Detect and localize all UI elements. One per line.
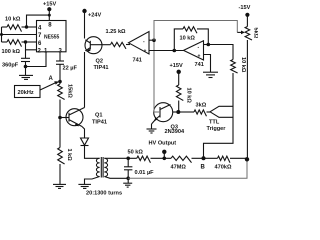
node 10k/pin4 junction xyxy=(25,25,28,28)
node U2 minus junction xyxy=(152,38,156,42)
wire U3 plus stub to ground xyxy=(204,55,211,73)
svg-text:Q2: Q2 xyxy=(96,59,103,65)
svg-text:0.01 µF: 0.01 µF xyxy=(135,170,155,176)
wire cap to node A xyxy=(59,64,61,81)
diode D1 xyxy=(81,138,89,146)
wire Q3 base from op-amp xyxy=(154,40,160,112)
wire 1k to ground xyxy=(59,164,61,184)
wire secondary bottom lead xyxy=(104,177,128,179)
ground G5 xyxy=(78,184,91,188)
wire U2 plus row to U3 output xyxy=(149,50,184,52)
resistor 15k (pot body) xyxy=(58,82,73,100)
node feedback/ground junction xyxy=(126,177,130,181)
node Q3 collector xyxy=(176,110,180,114)
transformer core xyxy=(101,157,103,178)
node cap 0.01 junction xyxy=(126,157,130,161)
svg-text:741: 741 xyxy=(133,58,142,64)
resistor R 100k xyxy=(2,40,37,55)
wire 1.25k to op-amp U2 output xyxy=(126,44,130,46)
node Q1 base junction xyxy=(58,116,62,120)
svg-text:TIP41: TIP41 xyxy=(94,65,109,71)
ground G6 xyxy=(123,183,132,187)
wire 3k to TTL tag xyxy=(207,111,211,113)
svg-text:20kHz: 20kHz xyxy=(18,90,34,96)
wire -15V to pot xyxy=(246,15,248,27)
resistor 47M xyxy=(171,156,192,170)
svg-text:TTL: TTL xyxy=(209,120,220,126)
wire pot bottom down right edge xyxy=(246,40,248,159)
svg-text:+24V: +24V xyxy=(88,13,101,19)
pot wiper arrow xyxy=(237,31,245,35)
wire +15V dot to pin8 xyxy=(48,9,50,20)
svg-text:10 kΩ: 10 kΩ xyxy=(186,88,192,104)
resistor 3k xyxy=(194,103,207,117)
ground G4 xyxy=(53,184,66,188)
svg-text:Q1: Q1 xyxy=(95,113,102,119)
wire U3 minus stub xyxy=(204,44,209,46)
svg-text:+15V: +15V xyxy=(170,63,183,69)
wire Q2 base to 1.25k xyxy=(102,44,111,46)
wire Q2 emitter down to Q1 collector xyxy=(84,52,86,108)
svg-text:10 kΩ: 10 kΩ xyxy=(5,17,21,23)
wire base node to Q1 xyxy=(60,117,69,119)
capacitor 22uF xyxy=(56,61,77,72)
op-amp U3 741 (right) xyxy=(184,41,204,68)
20kHz source box xyxy=(15,86,41,98)
svg-text:100 kΩ: 100 kΩ xyxy=(2,49,21,55)
wiper arrow from 20kHz box to node A xyxy=(40,81,59,90)
node left rail junction xyxy=(0,33,3,36)
wire cap to ground xyxy=(25,62,27,76)
wire U2 minus stub xyxy=(149,39,154,41)
wire +15V rail to R1 column xyxy=(27,15,50,27)
svg-text:2N3904: 2N3904 xyxy=(165,129,185,135)
top feedback wire gray xyxy=(154,21,237,41)
TTL trigger terminal tag xyxy=(207,106,234,132)
svg-text:A: A xyxy=(49,76,54,82)
svg-text:470kΩ: 470kΩ xyxy=(215,164,232,170)
svg-text:22 µF: 22 µF xyxy=(63,66,78,72)
wire 15k to Q1 base node xyxy=(59,100,61,118)
wire 47M to node B xyxy=(192,157,218,159)
node B xyxy=(202,156,206,160)
wire 10k to collector node xyxy=(178,101,180,113)
wire pin 3 down xyxy=(59,52,61,61)
wire +24V down to Q2 collector xyxy=(84,11,86,39)
svg-text:1.25 kΩ: 1.25 kΩ xyxy=(106,29,127,35)
svg-text:47MΩ: 47MΩ xyxy=(171,165,187,171)
svg-text:20:1300 turns: 20:1300 turns xyxy=(86,191,122,196)
transistor Q1 TIP41 xyxy=(66,108,107,127)
ground G2 xyxy=(203,72,218,77)
+24V terminal dot xyxy=(82,9,86,13)
svg-text:+15V: +15V xyxy=(43,2,56,8)
resistor 50k xyxy=(128,150,151,163)
capacitor 360pF xyxy=(2,58,30,68)
wire 50k to HV node xyxy=(151,157,172,159)
wire node B up and to x233 elbow xyxy=(204,118,234,159)
transformer T1 primary winding xyxy=(96,158,99,176)
wire diode to transformer primary xyxy=(85,146,100,159)
wire Q3 collector node to 3k xyxy=(178,111,194,113)
svg-text:NE555: NE555 xyxy=(44,35,60,41)
svg-text:5kΩ: 5kΩ xyxy=(253,28,259,39)
resistor 1.25k xyxy=(106,29,127,49)
node U3 fb left junction xyxy=(173,49,177,53)
transistor Q2 TIP41 xyxy=(85,37,108,71)
transistor Q3 2N3904 xyxy=(152,103,185,136)
wire cap stub xyxy=(127,158,129,167)
IC U1 NE555 box xyxy=(37,21,67,52)
wire primary bottom to ground xyxy=(85,177,100,185)
wire cap bottom to ground xyxy=(127,170,129,183)
svg-text:10 kΩ: 10 kΩ xyxy=(240,57,246,73)
transformer T1 secondary winding xyxy=(104,158,107,176)
wire 10k down to TTL tag edge xyxy=(232,73,234,106)
node junction pin8/+15V rail xyxy=(48,14,51,17)
svg-text:-15V: -15V xyxy=(239,5,251,11)
potentiometer 5k xyxy=(245,27,258,40)
svg-text:10 kΩ: 10 kΩ xyxy=(180,36,196,42)
svg-text:741: 741 xyxy=(195,62,204,68)
node right end xyxy=(245,157,249,161)
svg-text:50 kΩ: 50 kΩ xyxy=(128,150,144,156)
svg-text:360pF: 360pF xyxy=(2,63,19,69)
svg-text:B: B xyxy=(201,164,206,170)
node 100k/pin6 junction xyxy=(24,40,27,43)
resistor 10k right column xyxy=(231,57,246,73)
svg-text:3kΩ: 3kΩ xyxy=(196,103,207,109)
wire pin 2 to cap column xyxy=(26,42,37,50)
svg-text:1 kΩ: 1 kΩ xyxy=(66,149,72,162)
ground G1 xyxy=(19,75,33,79)
svg-text:+: + xyxy=(144,49,147,55)
wire base node down to 1k xyxy=(59,118,61,148)
feedback wire bottom gray xyxy=(128,160,247,179)
wire pin 1 down to ground node xyxy=(26,52,47,67)
op-amp U2 741 (left) xyxy=(129,32,150,64)
wire 470k to right node xyxy=(230,157,247,159)
resistor 470k xyxy=(215,156,232,170)
left rail wire xyxy=(1,27,3,42)
svg-text:+: + xyxy=(198,54,201,60)
node U3 minus junction xyxy=(207,43,211,47)
svg-text:HV Output: HV Output xyxy=(149,141,177,147)
svg-text:Trigger: Trigger xyxy=(207,126,227,132)
wire pin2 down to cap xyxy=(25,50,27,59)
svg-text:15kΩ: 15kΩ xyxy=(67,84,73,98)
HV Output terminal xyxy=(149,141,177,161)
resistor 1k xyxy=(58,148,72,165)
ground G3 xyxy=(147,129,157,133)
resistor 10k (Q3 collector) xyxy=(176,85,191,103)
wire pin 7 to left rail xyxy=(2,34,37,36)
wire Q3 emitter to ground xyxy=(151,124,153,129)
node pin1/cap junction xyxy=(24,65,28,69)
wire U3 minus node to right column xyxy=(208,45,233,60)
wire secondary top to 50k row xyxy=(104,157,136,159)
+15V terminal dot xyxy=(47,7,51,11)
resistor R 10k xyxy=(2,17,37,32)
feedback resistor 10k (U3) xyxy=(174,27,208,51)
wire +15V to 10k xyxy=(178,72,180,85)
capacitor 0.01uF xyxy=(124,167,154,176)
svg-text:TIP41: TIP41 xyxy=(92,120,107,126)
wire Q1 emitter down to diode xyxy=(82,127,85,139)
